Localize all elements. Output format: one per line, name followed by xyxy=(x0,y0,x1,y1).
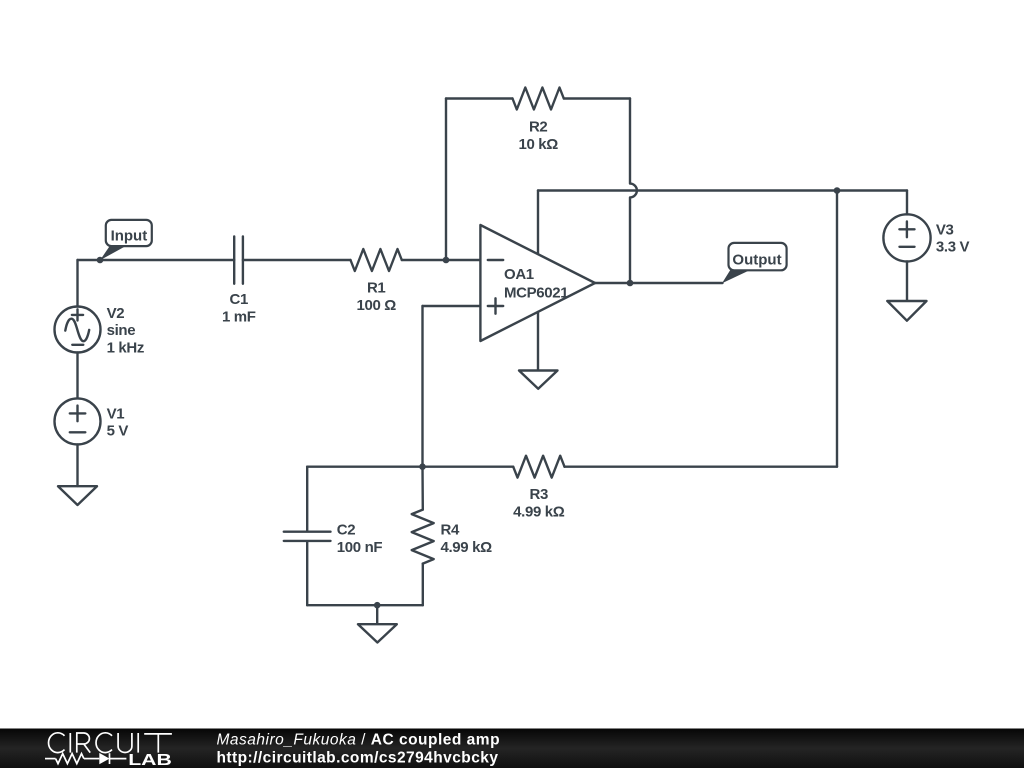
logo CIRCUIT lettering xyxy=(49,733,172,753)
svg-text:V3: V3 xyxy=(936,221,954,238)
ground (op-amp) xyxy=(519,371,558,389)
wire R4 bottom lead xyxy=(422,564,424,606)
resistor R4 xyxy=(412,510,492,564)
svg-text:Masahiro_Fukuoka / AC coupled: Masahiro_Fukuoka / AC coupled amp xyxy=(217,732,501,749)
svg-text:4.99 kΩ: 4.99 kΩ xyxy=(513,503,565,520)
svg-text:LAB: LAB xyxy=(128,751,172,768)
voltage source V3 xyxy=(883,214,969,261)
node Input junction xyxy=(97,257,104,264)
wire op-amp non-inverting input horizontal xyxy=(423,305,481,307)
svg-text:V1: V1 xyxy=(107,405,125,422)
svg-text:10 kΩ: 10 kΩ xyxy=(518,136,558,153)
svg-text:C1: C1 xyxy=(230,291,248,308)
wire node A up to R2 row xyxy=(445,99,447,261)
logo schematic (resistor + diode) xyxy=(45,753,126,764)
node ground junction xyxy=(374,602,381,609)
wire supply rail (3.3V) xyxy=(538,189,907,191)
svg-text:MCP6021: MCP6021 xyxy=(504,285,568,302)
svg-text:Input: Input xyxy=(111,228,148,245)
node supply junction xyxy=(834,187,841,194)
svg-text:3.3 V: 3.3 V xyxy=(936,239,970,256)
wire V1 to ground xyxy=(76,444,78,486)
wire V3 bottom lead xyxy=(906,262,908,301)
svg-text:Output: Output xyxy=(732,251,781,268)
svg-text:100 nF: 100 nF xyxy=(337,539,383,556)
wire input vertical (V2 top to Input node) xyxy=(76,260,78,307)
wire ground stem (bottom) xyxy=(376,605,378,624)
footer url text xyxy=(217,750,499,767)
wire R4 top lead xyxy=(421,467,424,510)
footer title text xyxy=(217,732,501,749)
wire op-amp V+ pin xyxy=(537,191,539,255)
wire C1 to R1 xyxy=(243,259,351,261)
wire R2 right lead xyxy=(564,97,630,99)
voltage source V2 sine xyxy=(55,305,145,357)
wire feedback vertical with hop over supply rail xyxy=(630,99,637,284)
svg-text:4.99 kΩ: 4.99 kΩ xyxy=(441,539,493,556)
wire input horizontal (Input node to C1) xyxy=(78,259,235,261)
resistor R2 xyxy=(513,88,564,153)
svg-text:100 Ω: 100 Ω xyxy=(356,297,396,314)
svg-text:R3: R3 xyxy=(530,486,548,503)
wire V3 top lead xyxy=(906,191,908,215)
wire bias vertical (rail down to R3) xyxy=(836,191,838,467)
logo LAB text xyxy=(128,751,172,768)
wire R3 right lead xyxy=(565,466,838,468)
svg-text:R2: R2 xyxy=(529,119,547,136)
capacitor C2 xyxy=(284,522,383,556)
flag Input xyxy=(100,220,152,260)
svg-text:R1: R1 xyxy=(367,279,385,296)
svg-text:1 mF: 1 mF xyxy=(222,309,256,326)
op-amp U1 OA1 MCP6021 xyxy=(480,225,595,341)
ground (V1) xyxy=(58,486,97,505)
svg-text:5 V: 5 V xyxy=(107,423,129,440)
ground (bias divider) xyxy=(358,624,397,642)
svg-text:http://circuitlab.com/cs2794hv: http://circuitlab.com/cs2794hvcbcky xyxy=(217,750,499,767)
capacitor C1 xyxy=(222,236,256,325)
wire op-amp V- pin to ground xyxy=(537,312,539,370)
svg-text:C2: C2 xyxy=(337,522,355,539)
node bias junction xyxy=(419,463,426,470)
node A junction (inverting input) xyxy=(443,257,450,264)
voltage source V1 xyxy=(55,398,129,444)
svg-text:sine: sine xyxy=(107,322,136,339)
wire C2 bottom lead xyxy=(306,542,308,605)
svg-text:V2: V2 xyxy=(107,305,125,322)
svg-text:R4: R4 xyxy=(441,522,460,539)
wire bottom (C2 to R4) xyxy=(307,604,423,606)
ground (V3) xyxy=(887,301,926,321)
wire V2 to V1 xyxy=(76,353,78,399)
wire R3 left lead to C2 branch xyxy=(307,466,513,468)
svg-text:OA1: OA1 xyxy=(504,266,534,283)
wire C2 top lead xyxy=(306,467,308,531)
flag Output xyxy=(722,243,787,283)
wire R1 to op-amp inverting input xyxy=(402,259,480,261)
resistor R1 xyxy=(351,249,402,314)
wire R2 left lead xyxy=(446,97,513,99)
svg-text:1 kHz: 1 kHz xyxy=(107,340,144,357)
footer bar xyxy=(0,729,1024,768)
wire op-amp output to Output flag xyxy=(595,282,723,284)
resistor R3 xyxy=(513,456,565,521)
node output junction xyxy=(627,280,634,287)
wire non-inverting input down to bias node xyxy=(421,306,423,467)
